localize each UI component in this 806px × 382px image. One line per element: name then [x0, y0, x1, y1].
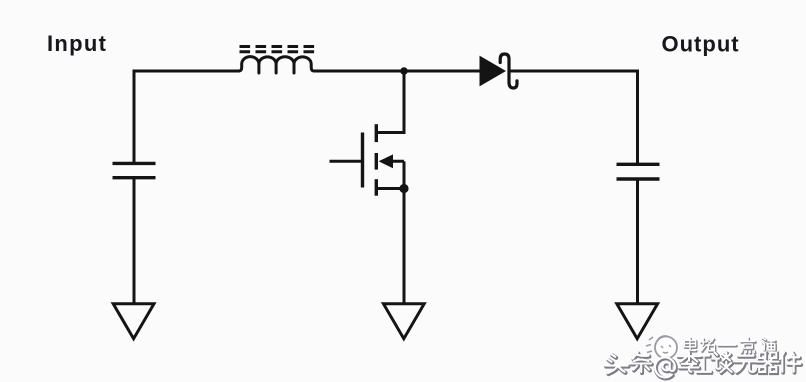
- wire left rail down to input cap: [133, 70, 136, 164]
- mosfet Q1 channel segment top: [375, 124, 378, 142]
- mosfet Q1 channel segment middle: [375, 153, 378, 170]
- watermark logo mascot: [646, 336, 677, 358]
- ground symbol left: [113, 304, 154, 339]
- capacitor C1 input bottom plate: [113, 176, 156, 179]
- capacitor C1 input top plate: [113, 162, 156, 165]
- wire source to ground: [403, 189, 406, 305]
- wire output cap to ground: [636, 179, 639, 304]
- mosfet Q1 body arrow: [379, 154, 393, 168]
- diode D1 schottky cathode bar: [500, 54, 517, 88]
- wire body to source junction: [403, 161, 406, 188]
- inductor L1 cusp stubs: [259, 64, 294, 73]
- node dot at switch junction: [400, 67, 408, 75]
- mosfet Q1 channel segment bottom: [375, 179, 378, 196]
- wire right rail down to output cap: [636, 70, 639, 164]
- svg-text:Input: Input: [47, 31, 107, 56]
- mosfet Q1 gate lead: [330, 160, 362, 163]
- wire node down to mosfet drain corner: [403, 71, 406, 133]
- mosfet Q1 gate plate: [361, 133, 364, 188]
- node dot at source junction: [399, 184, 408, 193]
- inductor L1 core dashes: [240, 47, 316, 52]
- wire inductor to node: [313, 70, 404, 73]
- capacitor C2 output bottom plate: [617, 177, 660, 180]
- inductor L1 coil: [239, 57, 314, 71]
- watermark text 头条@李工谈元器件: [606, 354, 801, 379]
- svg-text:Output: Output: [662, 32, 740, 57]
- wire diode to right corner: [511, 70, 640, 73]
- wire input cap to ground: [133, 178, 136, 304]
- watermark text 电路一点通: [685, 339, 777, 354]
- capacitor C2 output top plate: [617, 163, 660, 166]
- mosfet Q1 body line: [386, 160, 404, 163]
- diode D1 anode triangle: [480, 57, 505, 86]
- wire top-left horizontal: [134, 70, 240, 73]
- mosfet Q1 drain lead: [376, 131, 405, 134]
- ground symbol right: [617, 304, 658, 339]
- ground symbol middle: [383, 304, 424, 339]
- wire node to diode anode: [404, 70, 481, 73]
- mosfet Q1 source lead: [376, 187, 404, 190]
